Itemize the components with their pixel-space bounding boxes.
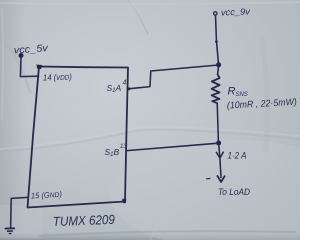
wire node to resistor top [217,67,220,75]
IC U1 TUMX6209 body [28,67,129,208]
wire pin13 S1B to load node [127,143,218,150]
node sense junction dot [216,62,221,67]
svg-text:TUMX 6209: TUMX 6209 [53,212,115,229]
svg-text:13: 13 [120,144,127,150]
IC corner blob top-left [37,65,43,70]
svg-text:15 (GND): 15 (GND) [31,190,63,201]
node load junction dot [216,141,221,146]
stray tick left of load arrow [207,177,211,179]
svg-text:1·2 A: 1·2 A [228,151,247,162]
current arrow chevron 1.2A [216,152,223,158]
arrowhead to load [217,176,224,182]
wire VCC_5V to pin 14 [20,57,38,77]
ink blob on VCC_9V wire [215,40,218,43]
resistor R_SNS zigzag [212,75,220,104]
wire pin15 GND down [11,197,28,227]
node VCC_5V dot [19,53,24,58]
svg-text:4: 4 [123,80,127,87]
wire load node down [219,145,220,157]
wire resistor bottom to load node [217,103,218,142]
svg-text:To LoAD: To LoAD [218,187,250,198]
IC corner blob bottom-right [122,199,127,204]
terminal VCC_9V circle [214,12,217,15]
wire pin4 S1A to sense node [129,65,219,89]
ground symbol [6,227,15,229]
wire to load arrow [220,158,221,178]
wire VCC_9V down to sense node [216,15,219,63]
pin4 wire start blob [128,87,131,90]
svg-text:vcc_9v: vcc_9v [221,6,251,17]
